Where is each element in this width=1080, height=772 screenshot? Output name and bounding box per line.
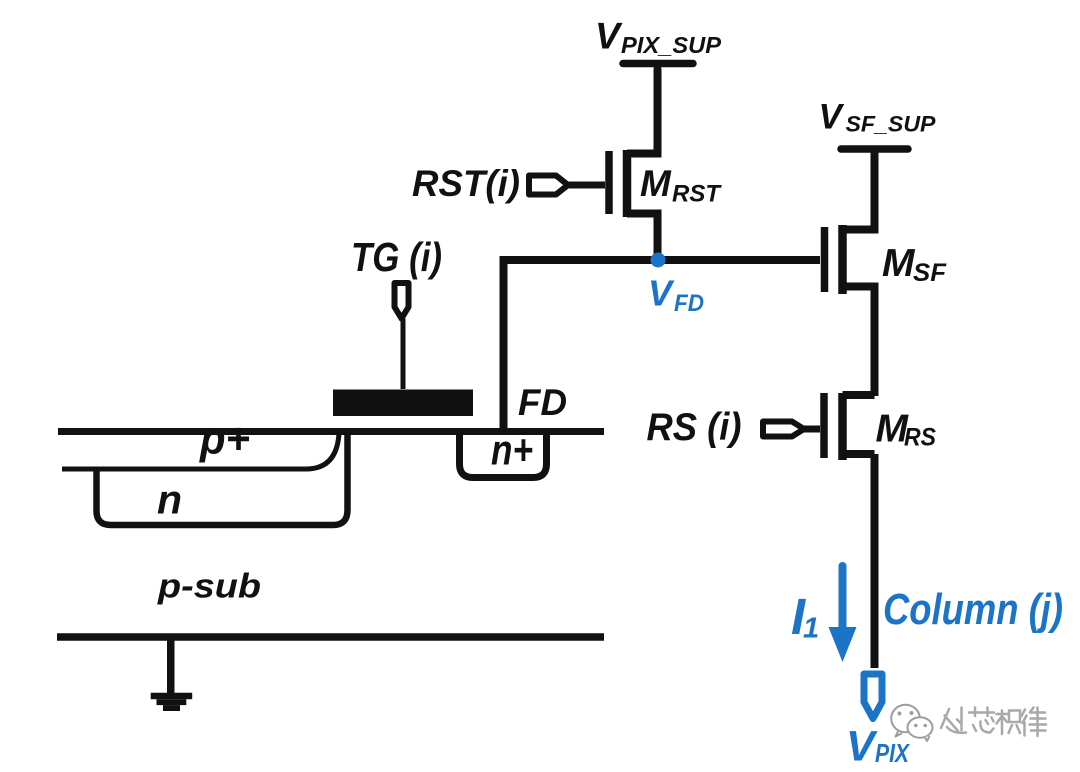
svg-text:SF_SUP: SF_SUP: [846, 112, 936, 137]
transistor M_RS: [824, 393, 875, 460]
svg-text:V: V: [648, 273, 675, 314]
node V_FD: [651, 253, 666, 268]
output pin V_PIX: [864, 674, 882, 719]
svg-text:p+: p+: [199, 415, 250, 464]
supply rail V_PIX_SUP: [623, 60, 693, 68]
transistor M_RST: [609, 69, 658, 262]
label M_RST: [640, 163, 722, 208]
svg-text:FD: FD: [674, 290, 704, 317]
watermark logo: [891, 705, 932, 741]
ground: [151, 637, 193, 711]
label M_SF: [882, 242, 947, 287]
svg-text:FD: FD: [518, 382, 567, 423]
wire V_FD main (FD contact to M_SF gate): [504, 260, 821, 431]
input pointer RST(i): [529, 176, 605, 195]
label I1: [791, 588, 819, 645]
svg-text:V: V: [819, 98, 845, 137]
svg-text:Column (j): Column (j): [883, 585, 1063, 634]
silicon surface line: [58, 428, 604, 435]
svg-text:RS: RS: [904, 424, 936, 452]
current arrow I1: [829, 562, 857, 662]
svg-text:p-sub: p-sub: [157, 568, 261, 606]
input pointer RS(i): [763, 422, 820, 437]
svg-text:TG (i): TG (i): [351, 234, 442, 280]
wire V_SF_SUP to M_SF drain: [871, 149, 879, 232]
svg-text:M: M: [882, 242, 916, 285]
svg-text:n+: n+: [491, 427, 533, 475]
watermark text: [941, 708, 1047, 738]
svg-text:RS (i): RS (i): [647, 406, 742, 449]
n well outline: [97, 432, 348, 525]
substrate bottom line: [57, 633, 604, 641]
label V_PIX: [846, 723, 910, 771]
svg-text:RST(i): RST(i): [412, 162, 520, 204]
label V_FD: [648, 273, 704, 318]
transfer gate poly: [333, 390, 473, 417]
wire V_PIX_SUP to M_RST drain: [654, 64, 662, 154]
transistor M_SF: [825, 150, 875, 396]
wire column line: [871, 454, 879, 668]
label M_RS: [876, 408, 937, 452]
svg-text:1: 1: [803, 613, 819, 645]
svg-text:PIX_SUP: PIX_SUP: [621, 32, 722, 58]
svg-text:RST: RST: [672, 181, 722, 208]
svg-text:V: V: [595, 15, 623, 57]
p+ layer outline: [62, 433, 339, 469]
supply rail V_SF_SUP: [841, 145, 908, 153]
gate terminal TG: [395, 283, 409, 389]
svg-text:PIX: PIX: [875, 738, 910, 768]
svg-text:V: V: [846, 723, 878, 771]
svg-text:M: M: [640, 163, 672, 204]
label V_SF_SUP: [819, 98, 936, 137]
label V_PIX_SUP: [595, 15, 722, 59]
svg-text:SF: SF: [913, 259, 947, 287]
n+ region outline: [460, 432, 547, 478]
svg-text:n: n: [157, 477, 182, 523]
